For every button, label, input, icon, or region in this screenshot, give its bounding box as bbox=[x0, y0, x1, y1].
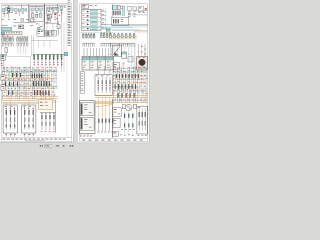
box A4 bbox=[127, 6, 131, 10]
wire cyan ladder 3 bbox=[132, 111, 134, 135]
terminal block TB1 bbox=[21, 19, 24, 21]
connector bar X2 bbox=[1, 32, 22, 35]
output driver group Q1-Q4 bbox=[41, 112, 43, 130]
module U2 mark bbox=[51, 8, 53, 9]
fuse group F6-F10 bbox=[17, 38, 18, 42]
wire cyan ladder 2 bbox=[128, 111, 130, 135]
box beside pump right bbox=[133, 104, 136, 108]
label net G2 bbox=[8, 18, 10, 21]
connector comb X4 rail bbox=[17, 42, 28, 44]
label scatter top E3 bbox=[54, 13, 56, 16]
label B2 a bbox=[1, 62, 3, 65]
motor M1 rotor bbox=[139, 59, 145, 65]
bottom small box bbox=[113, 131, 119, 136]
label net G1 bbox=[2, 18, 4, 21]
wire coil drop 3 bbox=[24, 102, 26, 106]
net labels mesh right bbox=[115, 66, 117, 69]
wire drop to J2 bbox=[21, 5, 23, 8]
connector comb X3 pins bbox=[1, 43, 3, 46]
viewer zoom text bbox=[56, 145, 59, 146]
left page footer divider bbox=[2, 136, 72, 138]
module A3 label bbox=[121, 18, 124, 21]
label G5 bbox=[2, 24, 4, 27]
comb X6 rail bbox=[101, 42, 111, 44]
wire J3 down bbox=[60, 9, 62, 21]
connector J1b bbox=[5, 8, 7, 10]
fuse group F11-F15 bbox=[82, 34, 84, 38]
label B2 b bbox=[1, 64, 3, 67]
bottom net labels bbox=[121, 128, 123, 131]
actuator module A9 bbox=[137, 106, 147, 134]
fuse row backing strip bbox=[109, 36, 137, 39]
red cross mark bbox=[145, 8, 147, 10]
label G8 bbox=[30, 24, 33, 27]
box A6 bbox=[138, 7, 144, 12]
label A2 bbox=[121, 5, 123, 8]
wire X2 down b bbox=[33, 35, 35, 54]
wire coil drop 1 bbox=[6, 102, 8, 106]
wire J2 down bbox=[18, 11, 20, 16]
module N2 hatch bbox=[45, 31, 48, 36]
connector J2b bbox=[18, 9, 20, 11]
module N3 mark bbox=[52, 33, 54, 36]
module N1 mark a bbox=[38, 30, 40, 33]
module N1 bbox=[37, 30, 44, 36]
wire B1 down bbox=[5, 52, 7, 56]
relay K1 coil bbox=[8, 10, 10, 11]
viewer toolbar prev button bbox=[40, 145, 41, 146]
connector J2a bbox=[15, 9, 18, 12]
table header box bbox=[82, 4, 89, 8]
wire G9 up bbox=[57, 21, 59, 25]
wire J1 down bbox=[3, 12, 5, 18]
wire A2 left vert bbox=[111, 4, 113, 17]
label net top right bbox=[64, 6, 66, 9]
module U2b cell bbox=[48, 15, 50, 17]
box A5 bbox=[133, 7, 137, 10]
cluster N teal cell bbox=[38, 27, 41, 29]
sensor B2 mark bbox=[2, 55, 4, 56]
box K left 1 marks bbox=[114, 108, 117, 111]
bottom small box mark bbox=[113, 132, 116, 135]
pump P1 marks bbox=[127, 106, 128, 107]
wire A hline 1 bbox=[135, 10, 148, 12]
wire X2 down a bbox=[31, 35, 33, 56]
label E col b bbox=[54, 16, 56, 19]
box F2 marks bbox=[114, 63, 117, 66]
label U1 right b bbox=[36, 23, 38, 26]
module A3 outline bbox=[112, 17, 129, 25]
wire G right bbox=[45, 22, 58, 24]
ECU labels below 2 bbox=[80, 135, 82, 137]
fuse strip backing F11-F15 bbox=[82, 35, 96, 38]
wire A marks bbox=[139, 11, 141, 14]
connector comb X4 pins bbox=[16, 43, 18, 46]
comb X5 rail bbox=[83, 42, 94, 44]
wire dark bus right 2 bbox=[112, 25, 148, 27]
label G6 bbox=[5, 24, 7, 27]
wire top bus dark bbox=[2, 4, 66, 6]
wire I right bbox=[30, 56, 32, 70]
box G9 bbox=[57, 25, 60, 29]
module U1 inner part b bbox=[36, 14, 38, 17]
cluster N wires up bbox=[38, 23, 40, 30]
connector bar X2 marks bbox=[6, 32, 7, 35]
box beside pump left bbox=[122, 105, 126, 109]
wire cyan bus 2 bbox=[92, 28, 140, 30]
left page margin divider bbox=[66, 4, 68, 138]
box F2 bbox=[113, 63, 120, 70]
viewer page field text bbox=[45, 144, 49, 147]
label U1 right c bbox=[40, 25, 42, 28]
wire G bus bbox=[13, 22, 35, 24]
wire cyan bottom left bbox=[2, 103, 39, 105]
wire drop to U2 bbox=[49, 6, 51, 7]
right page footer divider bbox=[80, 138, 148, 140]
F right verts bbox=[138, 44, 140, 57]
wire vertical bus A bbox=[28, 4, 30, 22]
label E col c bbox=[54, 18, 56, 21]
relay K1 contact bbox=[8, 8, 10, 9]
net labels mesh left bbox=[3, 67, 5, 70]
wire dark mid bbox=[112, 30, 148, 32]
label J1a bbox=[3, 12, 5, 15]
right margin labels bbox=[141, 45, 143, 48]
label J2c bbox=[22, 12, 24, 15]
injector labels row 2 bbox=[34, 63, 36, 66]
label scatter top E1 bbox=[47, 14, 49, 17]
ignition coil module T1 bbox=[3, 105, 17, 133]
module A7 wires up bbox=[97, 66, 99, 75]
junction box JB1 bbox=[1, 75, 5, 80]
cluster N bottom rail bbox=[31, 39, 58, 41]
module U1 cell 3 bbox=[39, 8, 42, 11]
connector comb X6 bbox=[100, 43, 102, 47]
injector labels row 1 bbox=[34, 61, 36, 64]
module A7 top labels bbox=[96, 75, 98, 78]
box K left 1 bbox=[113, 108, 121, 117]
sensor B1 bbox=[5, 48, 8, 53]
connector strip X8 text bbox=[81, 72, 83, 75]
wire cyan mid 1 bbox=[103, 26, 148, 28]
module U2 outline bbox=[47, 7, 53, 14]
filter Z1 orange box bbox=[39, 100, 53, 110]
box K left 2 marks bbox=[114, 119, 116, 122]
viewer zoom out bbox=[63, 145, 65, 146]
sensor labels 2 bbox=[98, 132, 100, 134]
wire A hline 2 bbox=[128, 14, 147, 16]
wire long vert E bbox=[60, 21, 62, 72]
switch S1 blade bbox=[114, 47, 120, 55]
wire top bus red bbox=[2, 5, 66, 7]
junction box JB2 bbox=[1, 85, 5, 90]
module U1 cell 2 bbox=[35, 8, 38, 11]
label scatter top E2 bbox=[51, 16, 53, 19]
label scatter top E5 bbox=[61, 12, 63, 15]
label J3 bbox=[60, 9, 62, 12]
wire orange ecu drops bbox=[98, 98, 100, 119]
module N2 bbox=[45, 30, 50, 37]
wire cyan bus 1 bbox=[80, 27, 133, 29]
module A2 cell teal bbox=[113, 6, 117, 10]
wires below comb X7 bbox=[110, 47, 112, 54]
module U1 inner part c bbox=[39, 14, 42, 17]
connector strip X1 bbox=[1, 27, 11, 30]
module U2b bbox=[47, 15, 52, 18]
connector strip X1 pins bbox=[1, 28, 3, 30]
component bars mesh right bbox=[116, 74, 117, 78]
connector bar X2 teal cell bbox=[2, 32, 5, 34]
pump P1 rotor bbox=[126, 104, 132, 110]
terminal block TB2 bbox=[31, 19, 34, 22]
wire coil bus orange 1 bbox=[2, 100, 56, 102]
wire coil drop 4 bbox=[28, 101, 30, 106]
module U1 label row 3 bbox=[40, 11, 42, 14]
module U1 outline bbox=[30, 7, 44, 22]
F text marks bbox=[118, 44, 120, 47]
wire orange mid bbox=[134, 31, 148, 33]
label X2 a bbox=[2, 35, 4, 38]
module N1 mark b bbox=[41, 30, 43, 33]
driver labels bbox=[41, 130, 43, 133]
label scatter top E4 bbox=[59, 14, 61, 17]
transistor group A2 bbox=[113, 11, 114, 16]
connector strip X8 bbox=[80, 72, 84, 94]
connector comb X7 bbox=[109, 43, 111, 47]
wire dark bus right bbox=[101, 23, 148, 25]
connector J1a bbox=[3, 8, 5, 11]
label E col a bbox=[54, 14, 56, 17]
text col A4 bbox=[128, 11, 131, 14]
label G7 bbox=[14, 25, 17, 28]
right title block text bbox=[82, 139, 85, 142]
wire B2 down bbox=[2, 60, 4, 70]
label scatter top E6 bbox=[47, 18, 49, 21]
wire mesh grid right bbox=[112, 71, 147, 73]
fuse group F1-F5 labels bbox=[2, 36, 4, 39]
wire M right vert bbox=[55, 100, 57, 133]
wires below comb X4 bbox=[17, 46, 19, 53]
top right of header marks bbox=[90, 4, 93, 7]
wire K1 down bbox=[8, 13, 10, 18]
wire cyan ladder 1 bbox=[124, 111, 126, 135]
wire orange ecu diag bbox=[95, 105, 112, 107]
label J2a bbox=[15, 12, 17, 15]
wire end marks X7 bbox=[110, 53, 111, 56]
fuse strip backing F16-F19 bbox=[100, 34, 112, 37]
module A7 outline bbox=[95, 75, 112, 96]
left title block text bbox=[3, 138, 6, 141]
wire G9 down bbox=[57, 29, 59, 35]
viewer fit icon bbox=[72, 145, 73, 146]
label net G3 teal bbox=[13, 18, 16, 21]
label X2 b bbox=[6, 35, 8, 38]
injector wires down bbox=[33, 61, 35, 67]
module N1 mark c bbox=[38, 32, 40, 35]
wire M bus bbox=[40, 111, 56, 113]
wire coil bus orange 2 bbox=[2, 101, 56, 103]
sensor labels bbox=[98, 130, 100, 133]
wire orange ecu 2 bbox=[95, 102, 114, 104]
module U2c mark bbox=[48, 19, 50, 22]
module U2c bbox=[47, 19, 51, 22]
wire drop to J1 bbox=[7, 5, 9, 8]
fuse group F16-F19 bbox=[100, 34, 102, 38]
cluster N wires down bbox=[38, 40, 40, 47]
ECU labels below bbox=[80, 134, 82, 137]
viewer zoom in bbox=[70, 145, 71, 146]
sensor group B3-B7 bbox=[98, 119, 99, 123]
connector J3 bbox=[60, 7, 63, 10]
fuse group F20-F26 bbox=[110, 34, 112, 38]
coil T2 bottom wires bbox=[24, 133, 26, 137]
wire vertical bus C bbox=[57, 4, 59, 24]
module U2 label bbox=[48, 10, 51, 13]
valve group Y9-Y14 bbox=[124, 114, 125, 118]
fuse group F1-F5 bbox=[2, 38, 3, 42]
module U3 cell bbox=[55, 8, 57, 10]
left page sheet bbox=[0, 0, 73, 142]
relay K1 body bbox=[8, 7, 10, 13]
label J1b bbox=[6, 12, 8, 15]
motor M1 marks bbox=[138, 66, 140, 69]
component bars mesh left bbox=[12, 73, 13, 77]
text col A5 bbox=[133, 11, 135, 14]
sensor B2 mark 2 bbox=[2, 58, 4, 59]
injector rail bbox=[33, 53, 64, 55]
coil T1 bottom wires bbox=[5, 133, 7, 137]
connector J2d bbox=[25, 9, 27, 11]
module U2 cell bbox=[48, 8, 50, 10]
label F area bbox=[122, 62, 124, 65]
table header text bbox=[82, 4, 86, 7]
connector comb X5 bbox=[82, 43, 84, 47]
node teal on bus bbox=[106, 29, 110, 32]
connector J4 teal bbox=[65, 52, 68, 56]
module U3 outline bbox=[54, 7, 59, 12]
box F small bbox=[128, 57, 133, 62]
module A3 parts bbox=[113, 19, 114, 23]
fuse strip backing F1-F5 bbox=[2, 38, 14, 41]
injector group Y1-Y8 bbox=[33, 54, 35, 61]
module N3 cell bbox=[52, 31, 54, 33]
module A7 parts bbox=[97, 77, 99, 93]
module U1 label row 2 bbox=[35, 11, 38, 14]
viewer page field bbox=[44, 145, 52, 148]
motor M1 top labels bbox=[138, 56, 140, 59]
wire drop to U1 bbox=[35, 5, 37, 8]
right page sheet bbox=[77, 0, 149, 143]
relay K7 bbox=[122, 52, 127, 58]
wire mesh grid left bbox=[2, 71, 57, 73]
switch S1 wedge bbox=[114, 52, 119, 55]
label J1c bbox=[11, 11, 13, 14]
ECU module A8 bbox=[79, 101, 95, 134]
filter Z1 marks bbox=[40, 101, 43, 104]
wire dark F vert bbox=[134, 44, 136, 72]
label net G4 bbox=[26, 18, 28, 21]
ignition coil module T2 bbox=[22, 105, 36, 133]
label U3 bbox=[54, 12, 57, 15]
revision notes column bbox=[68, 0, 71, 2]
module U1 inner part a bbox=[31, 14, 34, 18]
fuse group F6-F10 labels bbox=[17, 36, 19, 39]
wire coil drop 2 bbox=[10, 101, 12, 106]
comb X7 rail bbox=[110, 42, 135, 44]
wire cyan vertical from table bbox=[105, 8, 107, 28]
module U1 label row 1 bbox=[31, 11, 33, 14]
wire cyan F vert bbox=[131, 44, 133, 72]
cyan bar vertical bbox=[123, 6, 125, 15]
module U1 cell 1 bbox=[31, 8, 34, 11]
right page drawing frame bbox=[80, 4, 148, 142]
relay bank K3-K6 bbox=[82, 56, 114, 70]
label scatter top E7 bbox=[56, 17, 58, 20]
connector J2c bbox=[22, 8, 24, 11]
wire I top bbox=[7, 55, 30, 57]
connector J1c bbox=[11, 8, 13, 11]
indicator table D1-D5 bbox=[82, 9, 101, 30]
module N3 bbox=[51, 30, 56, 36]
left page drawing frame bbox=[2, 4, 72, 142]
fuse strip backing F6-F10 bbox=[16, 38, 28, 41]
sensor cluster B2 bbox=[1, 54, 5, 60]
connector comb X3 rail bbox=[2, 42, 13, 44]
wire K vert dark bbox=[111, 99, 113, 138]
switch S1 box bbox=[113, 45, 122, 56]
box K left 2 bbox=[113, 118, 120, 127]
wire cyan over C bbox=[80, 32, 113, 34]
relay K2 mark bbox=[19, 26, 21, 27]
wire orange ecu 1 bbox=[95, 100, 114, 102]
module A2 cell dark bbox=[117, 6, 120, 10]
box A6 mark bbox=[139, 7, 141, 10]
wire long vert E2 bbox=[63, 23, 65, 72]
module U1 label bottom bbox=[32, 18, 35, 21]
viewer toolbar next button bbox=[42, 145, 43, 146]
label U1 right a bbox=[46, 21, 48, 24]
wire vertical bus B bbox=[44, 4, 46, 30]
motor M1 box bbox=[137, 57, 148, 70]
relay bank wires up bbox=[83, 48, 85, 56]
relay K2 bbox=[19, 25, 24, 29]
